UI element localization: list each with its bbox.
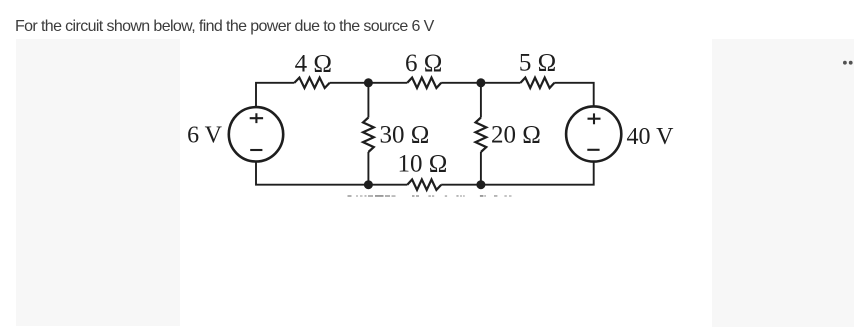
resistor R20 20ohm zigzag bbox=[476, 118, 487, 153]
svg-text:10 Ω: 10 Ω bbox=[397, 151, 447, 178]
resistor R30 30ohm zigzag bbox=[363, 118, 374, 153]
wire top rail: R6 to node B to R5 bbox=[441, 82, 520, 84]
watermark remnant dashes bbox=[348, 195, 352, 197]
svg-text:30 Ω: 30 Ω bbox=[380, 122, 430, 149]
V2 minus sign bbox=[587, 149, 599, 151]
wire node B to R20 top bbox=[480, 83, 482, 118]
voltage source V2 40V circle bbox=[566, 106, 621, 161]
svg-text:5 Ω: 5 Ω bbox=[519, 50, 556, 77]
left gray panel bbox=[16, 39, 180, 326]
wire top rail: R4 to node A to R6 bbox=[330, 82, 408, 84]
svg-text:20 Ω: 20 Ω bbox=[491, 122, 541, 149]
resistor R5 5ohm zigzag bbox=[521, 78, 555, 88]
right gray panel bbox=[712, 39, 854, 327]
wire bottom rail right: R10 to bottom right corner up to 40V bottom bbox=[441, 162, 594, 185]
svg-text:6 Ω: 6 Ω bbox=[405, 50, 442, 77]
wire top rail left: source top corner to R4 bbox=[256, 83, 294, 107]
resistor R4 4ohm zigzag bbox=[294, 78, 329, 88]
V1 minus sign bbox=[250, 149, 262, 151]
svg-text:6 V: 6 V bbox=[187, 123, 223, 149]
wire node A to R30 top bbox=[367, 83, 369, 118]
resistor R6 6ohm zigzag bbox=[407, 78, 441, 88]
node B junction dot bbox=[476, 78, 485, 87]
wire R20 bottom to bottom rail bbox=[480, 152, 482, 185]
ellipsis menu icon dots bbox=[843, 61, 847, 65]
wire top rail right: R5 to right corner down to 40V source top bbox=[554, 83, 593, 107]
V1 plus sign bbox=[250, 113, 263, 123]
resistor R10 10ohm zigzag bbox=[407, 180, 441, 190]
question text bbox=[15, 19, 434, 35]
node A2 bottom junction dot bbox=[364, 180, 373, 189]
node A junction dot bbox=[364, 78, 373, 87]
svg-text:40 V: 40 V bbox=[627, 124, 675, 150]
voltage source V1 6V circle bbox=[229, 107, 283, 161]
node B2 bottom junction dot bbox=[476, 180, 485, 189]
svg-text:4 Ω: 4 Ω bbox=[295, 51, 332, 78]
wire R30 bottom to bottom rail bbox=[367, 152, 369, 185]
V2 plus sign bbox=[588, 113, 601, 124]
wire left rail bottom: 6V source bottom to bottom rail bbox=[256, 162, 407, 185]
